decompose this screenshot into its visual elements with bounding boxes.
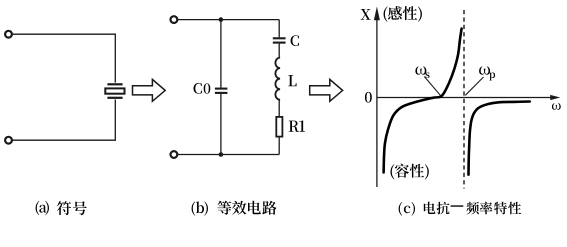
label 0 origin: [365, 92, 372, 103]
wire top (a): [12, 34, 115, 82]
reactance curve branch 2: [469, 102, 530, 175]
wire series top: [278, 20, 280, 38]
axis omega horizontal: [377, 97, 554, 99]
label (感性) inductive: [384, 6, 422, 22]
leader omega-s: [424, 77, 441, 96]
terminal bottom (b): [171, 151, 178, 158]
wire R1 to bottom: [278, 137, 280, 154]
terminal top-left: [5, 31, 12, 38]
caption dash: [451, 205, 464, 207]
label C: [291, 35, 299, 46]
inductor L coil: [275, 58, 280, 100]
leader omega-p: [465, 77, 483, 95]
wire C0 lower: [220, 94, 222, 155]
caption (b) 等效电路: [192, 201, 277, 216]
axis X (reactance) vertical: [376, 15, 378, 187]
junction node top: [219, 17, 224, 22]
crystal Y1 bottom plate: [107, 97, 122, 99]
capacitor C plates: [273, 37, 286, 39]
dashed asymptote at omega-p: [463, 10, 465, 189]
label L: [288, 75, 296, 86]
wire bottom (b): [177, 154, 279, 156]
caption (a) 符号: [36, 201, 87, 215]
wire C0 upper: [220, 20, 222, 88]
block arrow 2: [310, 79, 343, 101]
label omega: [552, 103, 561, 110]
label C0: [193, 83, 210, 94]
wire bottom (a): [12, 100, 115, 141]
caption (c) cont.: [466, 202, 521, 215]
resistor R1 body: [276, 117, 282, 137]
wire top (b): [177, 19, 279, 21]
terminal bottom-left: [5, 137, 12, 144]
block arrow 1: [133, 79, 166, 101]
wire L to R1: [278, 100, 280, 117]
label (容性) capacitive: [390, 164, 428, 180]
label omega-s: [415, 66, 429, 78]
caption (c) 电抗—频率特性: [399, 202, 450, 216]
wire C to L: [278, 44, 280, 58]
label X: [361, 9, 371, 20]
label R1: [289, 120, 305, 131]
axis omega arrowhead: [550, 95, 560, 100]
reactance curve branch 1: [384, 29, 462, 173]
axis X arrowhead: [374, 7, 380, 21]
crystal Y1 body: [105, 88, 124, 93]
capacitor C0 plates: [215, 88, 228, 90]
label omega-p: [479, 66, 495, 80]
terminal top (b): [171, 16, 178, 23]
junction node bottom: [219, 152, 224, 157]
crystal Y1 top plate: [107, 83, 122, 85]
